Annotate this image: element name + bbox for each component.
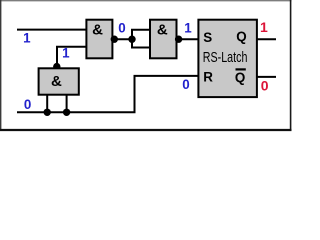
nand gate U1 — [86, 20, 112, 59]
wire latch Qbar output — [257, 76, 276, 78]
svg-text:1: 1 — [23, 31, 31, 46]
wire U3 output to U1 input 2 — [57, 47, 87, 67]
border frame bottom — [0, 129, 292, 131]
node stub2 junction — [63, 109, 70, 116]
node U3 output junction — [53, 63, 60, 70]
svg-text:&: & — [157, 22, 168, 39]
svg-text:&: & — [51, 73, 62, 90]
svg-text:0: 0 — [118, 21, 125, 36]
node U2 output junction — [175, 36, 182, 43]
wire input A to U1 — [17, 29, 87, 31]
node branch junction — [128, 36, 135, 43]
svg-text:0: 0 — [182, 77, 189, 92]
svg-text:0: 0 — [24, 97, 31, 112]
svg-text:1: 1 — [62, 46, 70, 61]
node U1 output junction — [111, 36, 118, 43]
nand gate U2 — [150, 20, 177, 59]
wire input B bottom run to latch R — [17, 76, 199, 112]
border frame top — [0, 0, 292, 2]
wire U1 output — [112, 38, 132, 40]
wire junction branch to U2 inputs — [132, 30, 151, 48]
RS-Latch U4 — [198, 20, 257, 97]
svg-text:&: & — [92, 22, 103, 39]
svg-text:S: S — [203, 30, 212, 45]
node stub1 junction — [44, 109, 51, 116]
svg-text:0: 0 — [261, 77, 269, 93]
svg-text:R: R — [203, 70, 213, 85]
border frame right — [290, 0, 292, 131]
nand gate U3 rotated — [39, 68, 79, 94]
svg-text:Q: Q — [236, 29, 246, 44]
svg-text:1: 1 — [260, 19, 268, 35]
svg-text:Q: Q — [235, 70, 245, 85]
svg-text:1: 1 — [184, 21, 192, 36]
border frame left — [0, 0, 2, 131]
wire latch Q output — [257, 38, 276, 40]
wire U2 output to latch S — [177, 38, 200, 40]
svg-text:RS-Latch: RS-Latch — [203, 50, 248, 66]
wire U3 input stub 2 — [66, 94, 68, 112]
wire U3 input stub 1 — [46, 94, 48, 112]
